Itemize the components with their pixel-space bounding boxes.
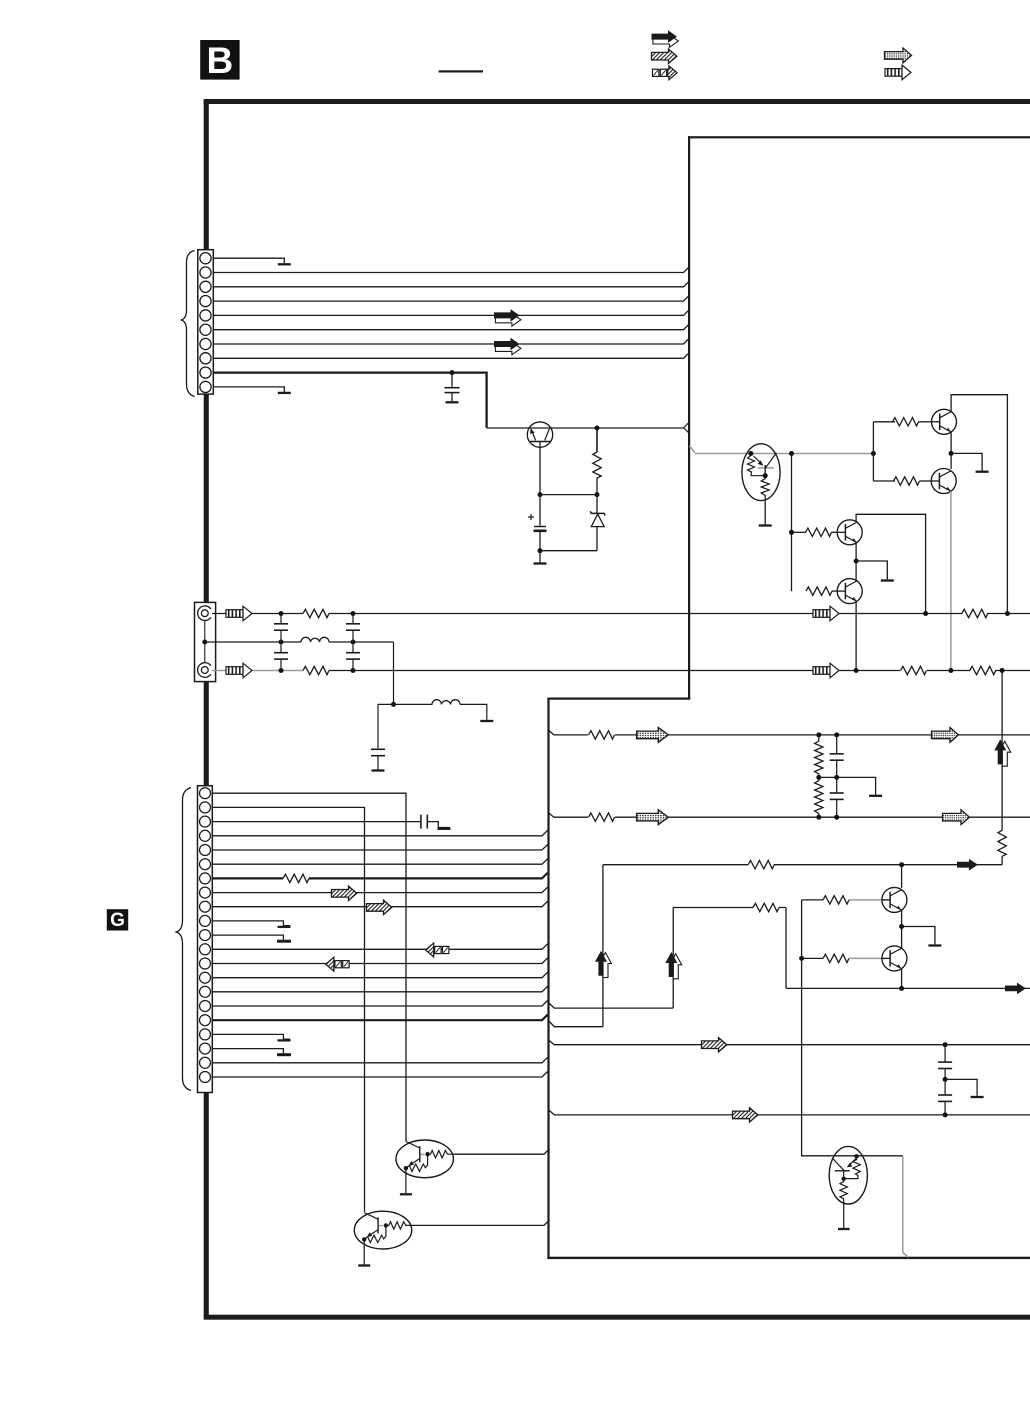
junction bus2 x281 — [279, 668, 284, 673]
wire L2 to ground — [460, 704, 487, 720]
bus2 wire grey left — [212, 670, 304, 672]
wire row19 to ground — [212, 1049, 283, 1054]
striped arrow bus2 right — [813, 663, 839, 678]
capacitor CD1 — [944, 1045, 946, 1062]
title underline — [439, 70, 483, 72]
junction wire E — [943, 1112, 948, 1117]
ground under C-top — [446, 401, 459, 403]
wire pin10 to ground — [213, 387, 284, 392]
page frame bottom border — [204, 1315, 1030, 1320]
wire row17 inside jog — [549, 1022, 603, 1027]
ground pin10 — [278, 392, 291, 394]
dotted arrow W2 right — [943, 810, 970, 825]
ground row10 — [278, 926, 291, 928]
transistor Q1 — [932, 409, 957, 434]
bus2 wire — [303, 670, 1030, 672]
transistor Q7 — [527, 422, 552, 447]
wire node link — [540, 494, 597, 496]
wire Q5 collector drop — [901, 865, 903, 888]
digital transistor DT-B — [354, 1211, 411, 1265]
DT1 shunt resistor — [761, 476, 769, 501]
wire bus2 drop to W1 — [1001, 671, 1003, 736]
page frame top border — [204, 99, 1030, 104]
wire row2 to DT-B — [212, 807, 365, 1212]
connector J-top pins 1-10 — [200, 253, 211, 393]
ground row3 — [438, 828, 451, 830]
wire B — [603, 864, 1002, 866]
resistor R-Q7 — [596, 428, 598, 452]
DT1 base resistor — [748, 456, 755, 473]
wire row4 — [212, 830, 548, 836]
wire Q6 base lead — [802, 957, 823, 959]
ground under C-fil — [372, 770, 385, 772]
wire row14 — [212, 972, 548, 978]
wire Q7 emitter down — [539, 447, 541, 494]
legend arrow solid — [652, 30, 679, 47]
junction on pin9 wire — [450, 370, 455, 375]
wire row1 to DT-A — [212, 793, 406, 1141]
resistor ladder upper — [815, 735, 823, 778]
DT1 transistor bar — [764, 465, 766, 476]
wire Q5Q6 base feed corner — [802, 900, 831, 1156]
resistor R-W16 — [753, 901, 779, 914]
junction bus1 x353 — [351, 611, 356, 616]
ground Q5 tap — [928, 945, 941, 947]
junction W2 ladder b — [834, 815, 839, 820]
DT1 emitter junction — [763, 473, 768, 478]
resistor R-bus2 right — [970, 664, 995, 677]
ground row19 bold — [277, 1053, 291, 1056]
wire C — [786, 987, 1030, 989]
ground under DT1 — [759, 525, 772, 527]
transistor Q5 — [882, 887, 907, 912]
wire ground tap Q3 — [856, 561, 887, 579]
junction shield tap — [202, 640, 207, 645]
striped arrow bus1 right — [813, 606, 839, 621]
00 arrow row13 — [326, 957, 349, 971]
junction W1 ladder b — [834, 732, 839, 737]
svg-text:G: G — [110, 910, 125, 931]
junction bus2 drop — [1000, 668, 1005, 673]
wire Q3 emitter chain — [855, 542, 857, 581]
ground under C-el — [534, 563, 547, 565]
page frame left border — [204, 99, 209, 1318]
capacitor C-fil — [371, 749, 385, 755]
coil L-mid — [301, 636, 329, 647]
DT1 grey base bar — [758, 467, 774, 469]
wire T-C feed chord — [831, 1155, 903, 1157]
wire pin1 to ground — [213, 258, 284, 263]
resistor R-bus1 — [303, 607, 329, 620]
wire row3 to ground — [427, 822, 450, 828]
wire ground tap Q1 — [951, 453, 982, 470]
wire row16 through — [212, 1001, 548, 1007]
wire row9 — [212, 901, 548, 907]
coil L2 — [394, 703, 433, 705]
resistor chain vertical — [998, 830, 1006, 856]
striped arrow bus2 left — [226, 663, 252, 678]
hatched arrow wire D — [702, 1038, 727, 1052]
wire transistor Q7 row — [487, 427, 528, 429]
middle shield wire — [205, 641, 394, 643]
wire Q1 collector loop — [951, 395, 1007, 614]
legend arrow 00 — [653, 66, 678, 80]
signal arrow on pin5 wire — [494, 309, 521, 326]
svg-text:B: B — [207, 40, 234, 81]
digital transistor DT-C — [829, 1146, 867, 1229]
inner box left edge lower — [547, 698, 549, 1259]
connector J-top body — [198, 250, 214, 394]
resistor R-Q4 base — [806, 587, 832, 595]
dotted arrow W2 left — [637, 810, 669, 825]
wire row5 — [212, 845, 548, 851]
up arrow W17 riser — [595, 951, 611, 978]
wire row12 — [212, 944, 548, 950]
junction grey feed to Q3Q4 column — [789, 451, 794, 456]
wire Q1Q2 base column — [872, 422, 874, 481]
resistor R-row7 — [283, 872, 309, 885]
connector J-mid pin2 — [198, 663, 211, 678]
wire row3 — [212, 821, 421, 823]
wire row16 inside jog — [549, 1003, 673, 1008]
junction cap node — [943, 1077, 948, 1082]
wire pin3 — [213, 281, 689, 287]
signal arrow on pin7 wire — [494, 338, 521, 355]
dotted arrow W1 left — [637, 728, 669, 743]
wire Q4 emitter to bus2 — [855, 601, 857, 670]
resistor R-Q3 base — [792, 531, 807, 533]
connector J-mid body — [195, 602, 216, 681]
sheet label G — [107, 909, 128, 931]
vertical W16 riser — [672, 908, 674, 1009]
capacitor C-row3 — [421, 815, 427, 829]
wire D from edge — [549, 1040, 1030, 1045]
resistor R-bus1 right — [962, 607, 987, 620]
shield wire drop — [393, 642, 395, 704]
connector J-bot pins 1-21 — [200, 788, 211, 1083]
junction bus2 Q4 — [854, 668, 859, 673]
capacitor C1a — [280, 614, 282, 624]
junction ladder mid a — [816, 775, 821, 780]
wire row21 — [212, 1072, 548, 1078]
wire W1 from edge — [549, 730, 1030, 735]
grey feed wire — [695, 453, 873, 455]
wire pin5 — [213, 310, 689, 316]
legend arrow dotted — [885, 48, 912, 63]
DT1 input junction — [748, 451, 753, 456]
junction Q1 emitter — [949, 451, 954, 456]
zener diode D1 — [596, 495, 598, 514]
brace for connector J-top — [182, 251, 195, 397]
junction grey feed to Q1Q2 column — [871, 451, 876, 456]
junction wire C Q6 — [899, 986, 904, 991]
solid arrow wire C — [1005, 983, 1026, 995]
transistor Q4 — [837, 579, 862, 604]
ground row11 bold — [277, 940, 291, 943]
resistor R-Q5 base — [823, 896, 849, 904]
wire W16 top run — [673, 907, 786, 909]
connector J-mid shield link — [204, 621, 206, 664]
wire pin9 thick — [213, 373, 487, 428]
resistor R-Q1 base — [873, 421, 895, 423]
wire W2 from edge — [549, 813, 1030, 818]
solid arrow wire B — [957, 859, 978, 871]
resistor R-Q2 base — [873, 480, 895, 482]
ground D tap — [971, 1096, 984, 1098]
ground ladder — [869, 795, 882, 797]
wire row8 — [212, 887, 548, 893]
inner box bottom edge — [547, 1257, 1030, 1259]
up arrow chain W1 to B — [1001, 735, 1003, 831]
wire DT-A to edge — [453, 1149, 549, 1154]
wire row15 — [212, 986, 548, 992]
junction base column Q3 — [789, 530, 794, 535]
up arrow W16 riser — [665, 952, 681, 979]
resistor ladder lower — [815, 777, 823, 817]
striped arrow bus1 left — [226, 606, 252, 621]
junction ladder mid b — [834, 775, 839, 780]
00 arrow row12 — [426, 943, 449, 957]
sheet label B — [200, 40, 239, 81]
hatched arrow wire E — [733, 1108, 758, 1122]
junction W2 ladder a — [816, 815, 821, 820]
junction Q3 emitter — [854, 559, 859, 564]
capacitor ladder upper — [836, 735, 838, 754]
junction mid x281 — [279, 640, 284, 645]
wire bottom link — [540, 550, 597, 552]
junction wire D — [943, 1042, 948, 1047]
capacitor C2b — [352, 642, 354, 653]
resistor R-W1 — [588, 728, 615, 741]
wire pin6 — [213, 324, 689, 330]
DT1 emitter wire — [764, 501, 766, 525]
inner box left edge upper — [688, 136, 690, 699]
legend arrow striped — [885, 65, 911, 80]
wire ladder mid link — [819, 776, 837, 778]
brace for connector J-bot — [176, 788, 191, 1091]
wire E from edge — [549, 1110, 1030, 1115]
inner box top edge — [688, 136, 1030, 138]
wire row6 — [212, 859, 548, 865]
grey wire Q5 base — [849, 899, 886, 901]
resistor R-W2 — [588, 811, 615, 824]
wire Q6 emitter — [901, 968, 903, 988]
wire Q3Q4 base column — [791, 454, 793, 592]
wire Q5 emitter chain — [901, 910, 903, 948]
resistor R-Q6 base — [823, 954, 849, 962]
legend arrow hatched — [652, 49, 677, 63]
digital transistor DT1 oval — [742, 444, 780, 501]
wire row20 — [212, 1057, 548, 1063]
capacitor CD2 — [944, 1079, 946, 1095]
capacitor ladder lower — [836, 777, 838, 793]
junction bottom node — [538, 548, 543, 553]
DT1 base arrow — [754, 456, 762, 464]
junction bus2 grey — [948, 668, 953, 673]
junction bus1 x281 — [279, 611, 284, 616]
resistor R-bus2 — [303, 664, 329, 677]
junction W1 ladder a — [816, 732, 821, 737]
hatched arrow row9 — [367, 900, 392, 914]
junction shield node — [391, 702, 396, 707]
wire Q5 base lead — [802, 899, 823, 901]
capacitor C1b — [280, 642, 282, 653]
junction wire B Q5 — [899, 862, 904, 867]
wire ladder ground tap — [837, 777, 876, 794]
wire W16 drop — [785, 908, 787, 989]
chevron entry at box edge — [684, 422, 690, 433]
bus1 wire — [212, 613, 1030, 615]
hatched arrow row8 — [332, 886, 357, 900]
wire pin4 — [213, 296, 689, 302]
transistor Q3 — [837, 520, 862, 545]
ground Q1 tap — [976, 471, 989, 473]
wire Q1 emitter — [950, 432, 952, 469]
wire Q3 collector loop to bus1 — [856, 514, 926, 613]
digital transistor DT-A — [396, 1140, 453, 1194]
wire pin7 — [213, 339, 689, 345]
inner box jog edge — [547, 698, 690, 700]
connector J-mid pin1 — [198, 606, 211, 621]
wire row17 thick through — [212, 1015, 548, 1021]
junction bus1 Q3 loop — [923, 611, 928, 616]
dotted arrow W1 right — [932, 728, 959, 743]
wire to ground — [539, 551, 541, 563]
resistor R-B — [748, 858, 774, 871]
wire row18 to ground — [212, 1034, 290, 1039]
wire pin2 — [213, 267, 689, 273]
ground Q3 tap — [881, 580, 894, 582]
junction bus1 Q1 loop — [1005, 611, 1010, 616]
resistor R-bus2 mid — [900, 664, 927, 677]
wire ground tap D — [945, 1079, 977, 1096]
wire row10 to ground — [212, 921, 290, 926]
DT1 internal link — [751, 472, 765, 475]
capacitor C-top on pin9 — [451, 373, 453, 387]
wire Q7 collector to box — [553, 427, 684, 429]
grey wire Q2 emitter to bus2 — [950, 491, 952, 671]
vertical W17 riser — [602, 865, 604, 1027]
DT1 collector diagonal — [765, 453, 776, 468]
transistor Q6 — [882, 946, 907, 971]
grey feed jog from box edge — [690, 446, 696, 453]
junction Q5 emitter — [899, 924, 904, 929]
wire ground tap Q5 — [902, 927, 935, 945]
junction resistor node — [595, 492, 600, 497]
junction emitter node — [538, 492, 543, 497]
ground pin1 — [278, 263, 291, 265]
wire pin8 — [213, 353, 689, 359]
grey wire Q6 base — [849, 957, 886, 959]
electrolytic capacitor C-el — [539, 495, 541, 526]
ground row18 — [278, 1039, 291, 1041]
connector J-bot body — [198, 786, 213, 1093]
wire to filter cap — [378, 704, 394, 748]
wire row7 thick — [212, 873, 548, 879]
junction mid x353 — [351, 640, 356, 645]
wire row11 to ground — [212, 935, 283, 940]
wire row13 — [212, 958, 548, 964]
ground after L2 — [480, 720, 493, 722]
junction bus2 x353 — [351, 668, 356, 673]
capacitor C2a — [352, 614, 354, 624]
grey wire DT-C to box bottom — [903, 1156, 909, 1258]
transistor Q2 — [931, 469, 956, 494]
wire DT-B to edge — [412, 1220, 550, 1225]
junction base column Q6 — [799, 956, 804, 961]
junction Q7 output — [595, 426, 600, 431]
